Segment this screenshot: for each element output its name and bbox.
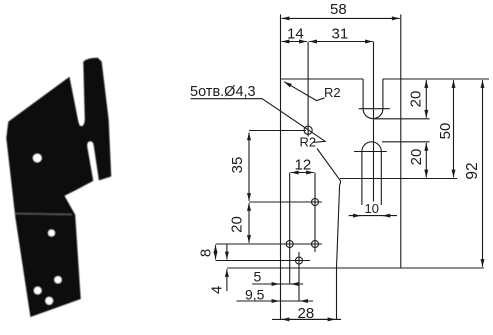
svg-text:20: 20 (408, 149, 425, 166)
dim 5 right outside arrow (291, 283, 298, 285)
svg-text:12: 12 (295, 157, 312, 174)
top right extension line (401, 78, 489, 80)
hole H4 (312, 241, 319, 248)
svg-text:31: 31 (332, 26, 349, 43)
lower slot (362, 142, 381, 205)
part outline left edge plus extension lines (280, 14, 282, 319)
dim 20 right lower (425, 143, 427, 178)
dim 9,5 left outside arrow (272, 300, 280, 302)
lower slot cross line (354, 151, 387, 153)
dim 9,5 right outside arrow (300, 300, 307, 302)
svg-text:5отв.Ø4,3: 5отв.Ø4,3 (190, 84, 256, 100)
part outline right edge plus extension line (400, 14, 402, 268)
svg-text:8: 8 (198, 249, 215, 257)
svg-text:35: 35 (229, 157, 246, 174)
dim 12 (291, 172, 314, 174)
svg-text:20: 20 (408, 91, 425, 108)
svg-text:9,5: 9,5 (245, 287, 265, 303)
hole H5 (296, 257, 303, 264)
svg-text:4: 4 (209, 286, 226, 294)
photo hole 1 (33, 154, 42, 163)
hole H3 (286, 241, 293, 248)
hole H5 centerlines (216, 252, 311, 301)
hole H1 centerlines (249, 42, 308, 137)
dim 8 (215, 245, 217, 259)
dim 4 upper outside arrow (226, 245, 228, 260)
photo hole 2 (48, 230, 55, 237)
dim 28 (272, 318, 341, 320)
dim 5 left outside arrow (272, 283, 279, 285)
dim 20 left (248, 203, 250, 243)
upper slot (363, 79, 383, 119)
bend line extension to 28 dim (336, 268, 338, 319)
dim 5 line (252, 283, 303, 285)
svg-text:5: 5 (254, 269, 262, 285)
dim 92 (482, 80, 484, 267)
leader R2 top (284, 82, 324, 101)
dim 10 line (349, 215, 397, 217)
part outline top edge (281, 78, 401, 80)
dim 9,5 line (237, 300, 314, 302)
leader 5otv through hole (191, 99, 326, 143)
dim 14 (282, 41, 307, 43)
bend diagonal edge (317, 149, 341, 269)
dim 58 (282, 17, 400, 19)
svg-text:92: 92 (464, 162, 481, 179)
photo of part: black silhouette (7, 59, 111, 317)
svg-text:20: 20 (229, 216, 246, 233)
upper slot cross line (359, 108, 390, 110)
dim 20 right upper (425, 80, 427, 118)
dim 10 left outside arrow (353, 215, 361, 217)
svg-text:58: 58 (330, 1, 347, 18)
hole H2 (312, 199, 319, 206)
step corner extension line (340, 178, 457, 180)
dim 31 (309, 41, 373, 43)
dim 35 (248, 133, 250, 201)
dim 4 lower outside arrow (226, 269, 228, 291)
photo hole 4 (34, 287, 42, 295)
photo hole 5 (45, 297, 53, 305)
svg-text:R2: R2 (300, 135, 317, 150)
svg-text:14: 14 (287, 26, 304, 43)
photo scratch streak (14, 214, 72, 215)
holes H3 H4 row line (216, 243, 323, 245)
hole H1 (304, 126, 312, 134)
photo hole 3 (54, 276, 61, 283)
dim 10 right outside arrow (382, 215, 390, 217)
hole H3 centerline vertical (289, 173, 291, 285)
part outline bottom edge plus extension lines (227, 267, 484, 269)
svg-text:28: 28 (298, 305, 315, 322)
svg-text:50: 50 (437, 123, 454, 140)
svg-text:10: 10 (365, 201, 379, 216)
hole H2 centerlines (249, 173, 322, 253)
svg-text:R2: R2 (324, 85, 341, 100)
upper slot bottom extension line (373, 118, 430, 120)
slot centerline (373, 42, 375, 202)
dim 50 (453, 80, 455, 177)
lower slot top extension line (382, 141, 430, 143)
